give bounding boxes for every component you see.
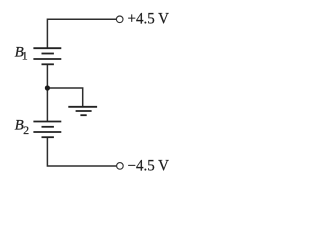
battery B1	[33, 48, 61, 64]
svg-text:+4.5 V: +4.5 V	[128, 11, 170, 28]
node junction dot	[45, 85, 50, 90]
wire top horizontal (+4.5 V rail)	[47, 19, 116, 48]
battery B2	[33, 122, 61, 138]
wire left rail middle segment	[46, 64, 48, 121]
terminal -4.5V	[117, 163, 124, 170]
wire left rail bottom segment	[47, 137, 116, 166]
ground	[68, 107, 97, 115]
svg-text:−4.5 V: −4.5 V	[128, 158, 170, 175]
wire junction to ground	[47, 88, 82, 107]
terminal +4.5V	[116, 16, 123, 23]
